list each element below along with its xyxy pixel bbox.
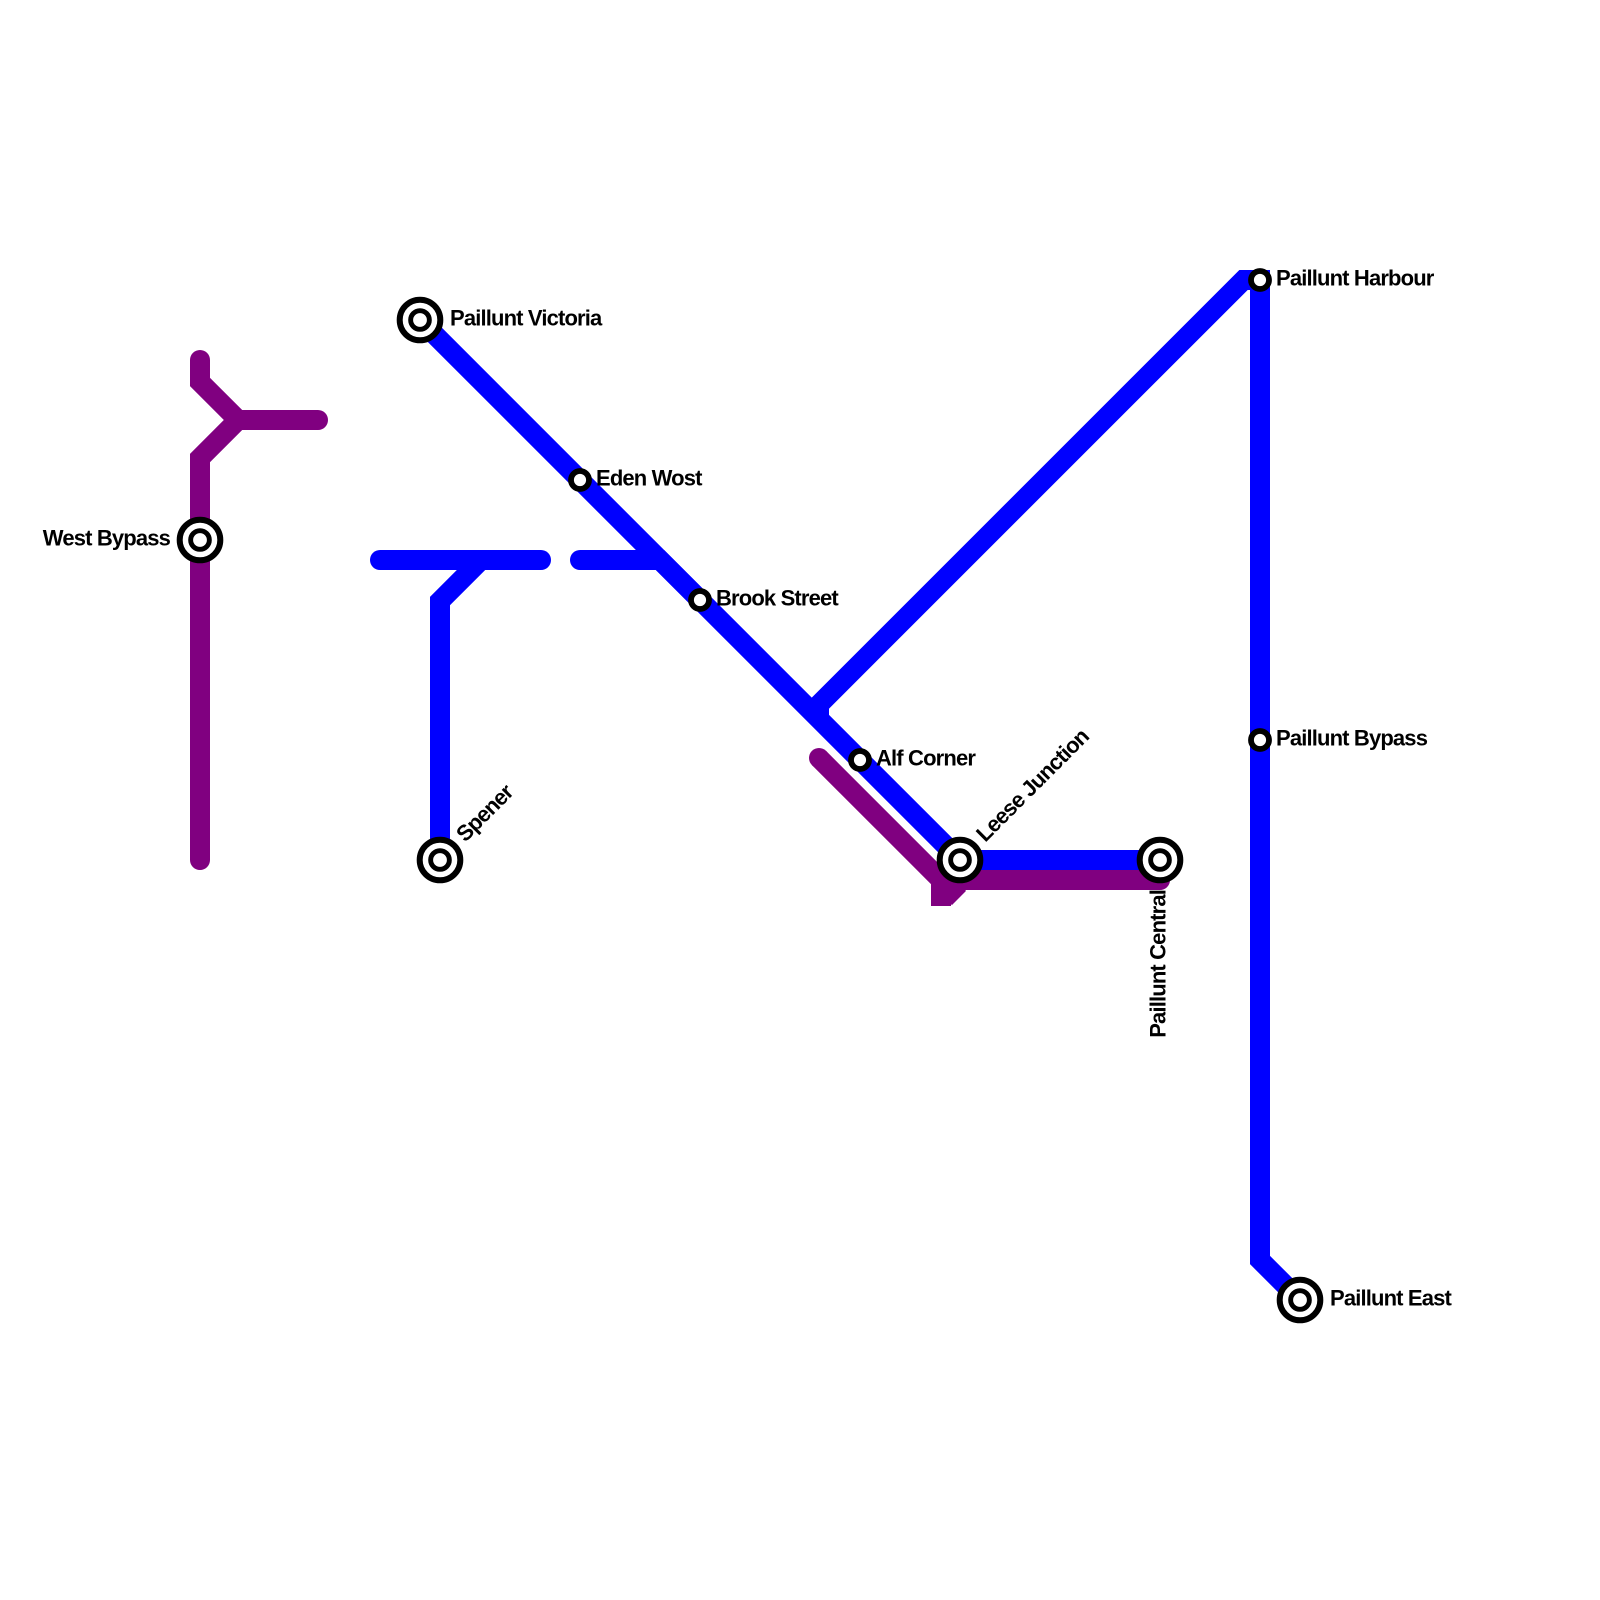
station Eden Wost (small) — [571, 471, 589, 489]
blue line: east horizontal segment B joining main diagonal — [580, 560, 700, 600]
svg-text:Paillunt Bypass: Paillunt Bypass — [1276, 726, 1428, 751]
purple line: Alf Corner diagonal — [819, 758, 959, 898]
station West Bypass (interchange) — [180, 520, 221, 561]
purple line: Leese-Central horizontal — [941, 870, 1160, 890]
svg-text:Paillunt Harbour: Paillunt Harbour — [1276, 266, 1435, 291]
station Paillunt East (interchange) — [1280, 1280, 1321, 1321]
svg-text:Paillunt East: Paillunt East — [1330, 1286, 1453, 1311]
blue line: Victoria-Eden Wost-Brook Street-Alf Corner-Leese Junction-Paillunt Central — [420, 320, 1160, 860]
station Paillunt Victoria (interchange) — [400, 300, 441, 341]
purple line: Alf Corner diagonal start cap — [809, 748, 829, 768]
svg-text:Paillunt Central: Paillunt Central — [1146, 890, 1171, 1038]
purple line: west branch upper fork to horizontal arm — [200, 360, 318, 420]
station Paillunt Central (interchange) — [1140, 840, 1181, 881]
station Leese Junction (interchange) — [940, 840, 981, 881]
purple line: junction tail below Leese — [931, 870, 951, 906]
svg-text:Paillunt Victoria: Paillunt Victoria — [450, 306, 603, 331]
svg-text:Brook Street: Brook Street — [716, 586, 839, 611]
blue line: Leese Junction-Paillunt Harbour-Paillunt Bypass-Paillunt East — [819, 280, 1300, 1300]
svg-text:Alf Corner: Alf Corner — [876, 746, 976, 771]
station Alf Corner (small) — [851, 751, 869, 769]
station Spener (interchange) — [420, 840, 461, 881]
blue line: west horizontal segment A — [380, 550, 541, 570]
station Paillunt Bypass (small) — [1251, 731, 1269, 749]
station Paillunt Harbour (small) — [1251, 271, 1269, 289]
purple line: West Bypass vertical — [200, 420, 238, 860]
svg-text:Eden Wost: Eden Wost — [596, 466, 703, 491]
svg-text:West Bypass: West Bypass — [43, 526, 171, 551]
station Brook Street (small) — [691, 591, 709, 609]
blue line: Spener branch — [440, 560, 481, 860]
